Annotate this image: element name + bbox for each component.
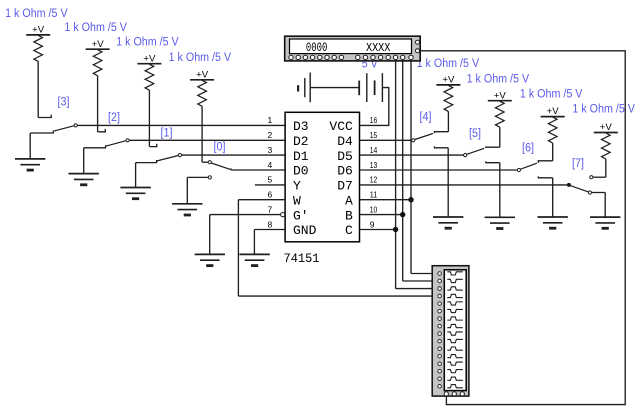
svg-text:5: 5	[267, 175, 272, 185]
svg-text:XXXX: XXXX	[366, 41, 391, 55]
svg-text:VCC: VCC	[329, 119, 353, 134]
svg-text:6: 6	[267, 190, 272, 200]
svg-text:B: B	[345, 208, 353, 223]
svg-text:[4]: [4]	[420, 111, 432, 123]
svg-text:GND: GND	[293, 223, 317, 238]
svg-text:[2]: [2]	[108, 112, 120, 124]
svg-text:1 k Ohm /5 V: 1 k Ohm /5 V	[467, 74, 530, 86]
svg-text:11: 11	[370, 190, 378, 200]
svg-text:1: 1	[267, 115, 272, 125]
svg-text:7: 7	[267, 204, 272, 214]
svg-text:[5]: [5]	[469, 128, 481, 140]
svg-text:D6: D6	[337, 164, 353, 179]
svg-text:8: 8	[267, 219, 272, 229]
svg-text:13: 13	[370, 160, 378, 170]
svg-text:74151: 74151	[284, 251, 320, 266]
svg-text:D0: D0	[293, 164, 309, 179]
svg-text:1 k Ohm /5 V: 1 k Ohm /5 V	[5, 8, 68, 20]
svg-text:0000: 0000	[306, 41, 328, 55]
svg-text:W: W	[293, 193, 301, 208]
svg-text:3: 3	[267, 145, 272, 155]
svg-text:+V: +V	[547, 106, 559, 116]
svg-text:+V: +V	[143, 53, 155, 63]
svg-text:10: 10	[370, 204, 378, 214]
svg-text:A: A	[345, 193, 353, 208]
svg-text:+V: +V	[600, 122, 612, 132]
svg-text:2: 2	[267, 130, 272, 140]
svg-text:15: 15	[370, 130, 378, 140]
svg-text:1 k Ohm /5 V: 1 k Ohm /5 V	[64, 22, 127, 34]
svg-text:+V: +V	[92, 39, 104, 49]
svg-text:[1]: [1]	[161, 128, 173, 140]
svg-text:16: 16	[370, 115, 378, 125]
svg-text:1 k Ohm /5 V: 1 k Ohm /5 V	[520, 89, 583, 101]
svg-text:[0]: [0]	[214, 142, 226, 154]
svg-text:D7: D7	[337, 179, 353, 194]
svg-text:12: 12	[370, 175, 378, 185]
svg-text:G′: G′	[293, 208, 309, 223]
svg-text:[6]: [6]	[522, 143, 534, 155]
svg-text:+V: +V	[32, 25, 44, 35]
svg-text:C: C	[345, 223, 353, 238]
svg-text:D4: D4	[337, 134, 353, 149]
svg-text:9: 9	[370, 219, 375, 229]
svg-text:D5: D5	[337, 149, 353, 164]
svg-text:D3: D3	[293, 119, 309, 134]
svg-text:[7]: [7]	[572, 158, 584, 170]
svg-text:14: 14	[370, 145, 378, 155]
svg-text:+V: +V	[494, 90, 506, 100]
svg-text:D2: D2	[293, 134, 309, 149]
svg-text:1 k Ohm /5 V: 1 k Ohm /5 V	[169, 52, 232, 64]
svg-text:Y: Y	[293, 179, 301, 194]
svg-text:4: 4	[267, 160, 272, 170]
svg-text:D1: D1	[293, 149, 309, 164]
svg-text:1 k Ohm /5 V: 1 k Ohm /5 V	[116, 36, 179, 48]
svg-text:+V: +V	[442, 75, 454, 85]
svg-text:1 k Ohm /5 V: 1 k Ohm /5 V	[417, 58, 480, 70]
svg-text:+V: +V	[196, 69, 208, 79]
svg-text:[3]: [3]	[58, 97, 70, 109]
